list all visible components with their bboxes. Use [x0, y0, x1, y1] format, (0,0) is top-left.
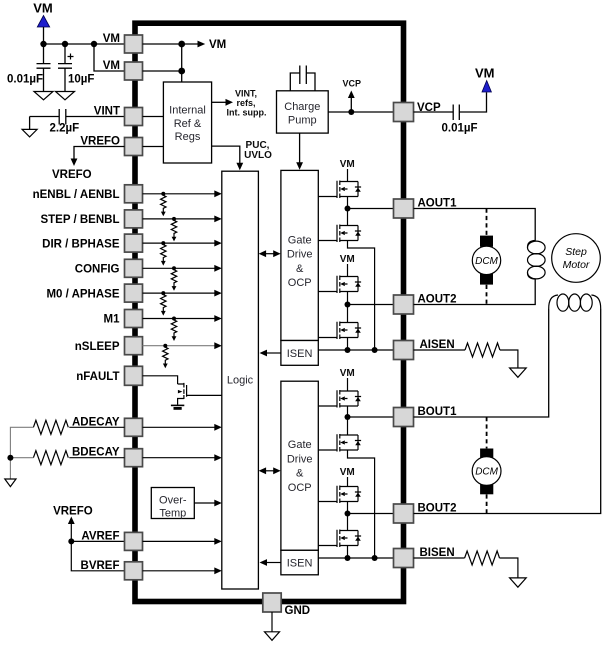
svg-text:VINT,: VINT,: [235, 89, 257, 99]
wire nENBL / AENBL to Logic: [143, 193, 216, 195]
wire BOUT2 node to pin: [348, 513, 394, 515]
pin BOUT2: [394, 504, 414, 523]
wire PUC UVLO to Logic: [212, 146, 240, 163]
svg-text:Drive: Drive: [287, 453, 313, 465]
svg-text:Internal: Internal: [169, 105, 206, 117]
svg-text:&: &: [296, 263, 304, 275]
svg-text:ADECAY: ADECAY: [72, 416, 120, 428]
double arrow Logic to Gate Drive A: [265, 253, 276, 255]
pin AOUT1: [394, 199, 414, 218]
svg-text:10µF: 10µF: [68, 74, 94, 86]
svg-text:AVREF: AVREF: [81, 530, 119, 542]
node BOUT1: [345, 414, 351, 420]
pulldown resistor on M1: [172, 317, 176, 321]
wire B2 source to BISEN: [348, 450, 375, 558]
sense resistor AISEN: [465, 343, 500, 357]
DC motor A body: [472, 246, 500, 274]
pin GND: [263, 593, 281, 612]
node VCP: [348, 109, 354, 115]
wire VM stub to B3: [347, 477, 349, 487]
wire AISEN net: [318, 349, 393, 351]
arrow ISEN A to Logic: [266, 352, 281, 354]
svg-text:AOUT1: AOUT1: [418, 198, 458, 210]
svg-text:UVLO: UVLO: [244, 150, 272, 161]
pin M1: [125, 310, 143, 328]
node internal VM 1: [178, 41, 185, 48]
svg-text:&: &: [296, 468, 304, 480]
wire B3 source to BOUT2 node to B4 drain: [347, 502, 349, 531]
svg-text:VM: VM: [340, 159, 355, 170]
svg-text:Over-: Over-: [159, 495, 187, 507]
wire BOUT1 to coil B: [414, 309, 549, 417]
arrow Charge Pump to Gate Drive A: [299, 133, 301, 162]
pin VINT: [125, 108, 143, 126]
inductor coil phase A: [527, 241, 535, 280]
node junction at C2: [62, 41, 68, 47]
arrow Over-Temp to Logic: [194, 502, 215, 504]
wire gate of nFAULT FET to Logic: [187, 394, 222, 396]
wire M1 to Logic: [143, 318, 216, 320]
wire VCP net: [328, 111, 393, 113]
arrow VREFO up: [68, 517, 75, 525]
svg-text:VM: VM: [340, 368, 355, 379]
pin VREFO: [125, 138, 143, 156]
svg-text:AOUT2: AOUT2: [418, 294, 457, 306]
block Internal Ref & Regs: [163, 82, 211, 163]
svg-text:Charge: Charge: [284, 101, 320, 113]
pin VM 2: [125, 62, 143, 80]
svg-text:GND: GND: [285, 605, 311, 617]
dashed lead DC motor A: [486, 209, 488, 305]
wire BOUT1 node to pin: [348, 416, 394, 418]
ground below C1: [34, 92, 53, 100]
wire VREFO rail to BVREF: [71, 541, 124, 570]
DC motor B body: [472, 457, 501, 486]
pin DIR / BPHASE: [125, 234, 143, 252]
svg-text:DIR / BPHASE: DIR / BPHASE: [42, 238, 120, 250]
pulldown resistor on DIR / BPHASE: [161, 241, 165, 245]
svg-text:VREFO: VREFO: [52, 169, 92, 181]
wire B4 source to BISEN: [347, 546, 349, 559]
block Gate Drive & OCP (B): [281, 381, 318, 550]
pin VM 1: [125, 35, 143, 53]
open-drain transistor on nFAULT: [178, 383, 187, 405]
wire VM stub to A3: [347, 264, 349, 277]
svg-text:VM: VM: [340, 467, 355, 478]
DC motor B brush bottom: [480, 483, 493, 495]
pin BISEN: [394, 549, 414, 568]
svg-text:VM: VM: [33, 1, 53, 16]
svg-text:VM: VM: [209, 39, 226, 51]
svg-text:nFAULT: nFAULT: [76, 371, 119, 383]
wire AISEN resistor to ground: [500, 350, 518, 368]
pin AVREF: [125, 532, 143, 550]
arrow ISEN B to Logic: [266, 562, 281, 564]
node AISEN 2: [372, 347, 378, 353]
sense resistor BISEN: [465, 551, 500, 565]
svg-text:Int. supp.: Int. supp.: [227, 107, 267, 117]
svg-text:0.01µF: 0.01µF: [442, 123, 478, 135]
wire ADECAY to external resistor: [69, 426, 124, 428]
VM supply arrow (blue triangle): [37, 16, 49, 28]
svg-text:ISEN: ISEN: [287, 348, 313, 360]
node junction at C1: [40, 41, 46, 47]
node AOUT2: [345, 302, 351, 308]
wire VREFO external: [74, 147, 125, 160]
wire AVREF to Logic: [143, 540, 216, 542]
wire BISEN net: [318, 557, 393, 559]
pulldown resistor on STEP / BENBL: [172, 217, 176, 221]
pulldown resistor on nENBL / AENBL: [161, 192, 165, 196]
wire CONFIG to Logic: [143, 267, 216, 269]
wire M0 / APHASE to Logic: [143, 292, 216, 294]
wire ADECAY to Logic: [143, 426, 216, 428]
svg-text:VM: VM: [103, 60, 120, 72]
block Charge Pump: [277, 91, 329, 133]
wire VREFO rail to AVREF: [71, 540, 124, 542]
svg-text:AISEN: AISEN: [420, 339, 455, 351]
svg-text:CONFIG: CONFIG: [75, 264, 120, 276]
capacitor 2.2uF on VINT: [30, 109, 125, 125]
svg-text:VM: VM: [475, 66, 495, 81]
pin ADECAY: [125, 418, 143, 436]
wire AOUT2 node to pin: [348, 304, 394, 306]
svg-text:Temp: Temp: [159, 508, 186, 520]
svg-text:VM: VM: [103, 33, 120, 45]
transistor A low-side 2: [337, 322, 361, 340]
svg-text:Regs: Regs: [175, 131, 201, 143]
node AOUT1: [345, 206, 351, 212]
svg-text:OCP: OCP: [288, 277, 312, 289]
pin VCP: [394, 103, 414, 122]
transistor A high-side 2: [337, 276, 361, 294]
IC package outline: [135, 23, 404, 601]
ground below 2.2uF: [22, 129, 37, 137]
svg-text:Step: Step: [565, 246, 587, 258]
wire BDECAY resistor to ground rail (gray): [10, 458, 33, 479]
pin nSLEEP: [125, 337, 143, 355]
node junction at VM branch: [91, 41, 97, 47]
pulldown resistor on CONFIG: [172, 266, 176, 270]
wire BISEN to sense resistor: [414, 557, 465, 559]
block Gate Drive & OCP (A): [281, 170, 318, 340]
wire VM pin2 to internal node: [143, 70, 182, 72]
wire STEP / BENBL to Logic: [143, 218, 216, 220]
block Over-Temp: [151, 488, 194, 519]
node decay ground rail: [7, 455, 13, 461]
ground below C2: [56, 92, 75, 100]
transistor B low-side 2: [337, 530, 361, 548]
pin AISEN: [394, 341, 414, 360]
svg-text:BVREF: BVREF: [81, 560, 120, 572]
arrow PUC UVLO into Logic: [236, 163, 243, 171]
capacitor C1 0.01uF: [37, 44, 51, 92]
pulldown resistor on nSLEEP: [163, 344, 167, 348]
wire BDECAY to Logic: [143, 457, 216, 459]
charge pump flying capacitor: [290, 66, 315, 91]
wire AOUT1 to coil A: [414, 209, 536, 241]
svg-text:nSLEEP: nSLEEP: [75, 341, 120, 353]
svg-text:nENBL / AENBL: nENBL / AENBL: [33, 189, 120, 201]
block ISEN (B): [281, 550, 318, 575]
wire AISEN to sense resistor: [414, 349, 466, 351]
wire A2 source to AISEN: [348, 241, 375, 351]
svg-text:Logic: Logic: [227, 374, 254, 386]
svg-text:BOUT1: BOUT1: [418, 406, 458, 418]
transistor A low-side 1: [337, 225, 361, 243]
VM arrow right (blue triangle): [482, 81, 491, 93]
svg-text:BDECAY: BDECAY: [72, 447, 120, 459]
pulldown resistor on M0 / APHASE: [161, 291, 165, 295]
wire A4 source to AISEN: [347, 338, 349, 351]
node BISEN 2: [372, 555, 378, 561]
node AISEN 1: [345, 347, 351, 353]
wire gate leads B: [318, 406, 337, 546]
node BISEN 1: [345, 555, 351, 561]
wire A1 source to AOUT1 node to A2 drain: [347, 197, 349, 226]
wire VM node down to Internal Ref block: [181, 44, 183, 82]
svg-text:Drive: Drive: [287, 249, 313, 261]
svg-text:Motor: Motor: [563, 259, 590, 271]
wire BDECAY to external resistor: [69, 457, 124, 459]
wire ADECAY resistor to ground rail (gray): [10, 427, 33, 457]
pin BOUT1: [394, 408, 414, 427]
svg-text:VM: VM: [340, 254, 355, 265]
wire AOUT2 to coil A: [414, 279, 536, 305]
svg-text:VINT: VINT: [94, 106, 120, 118]
pin STEP / BENBL: [125, 210, 143, 228]
DC motor A brush top: [480, 236, 493, 247]
pin nENBL / AENBL: [125, 185, 143, 203]
svg-text:VREFO: VREFO: [80, 136, 120, 148]
wire VM pin1 to internal node: [143, 43, 182, 45]
stepper motor symbol: [552, 234, 601, 283]
wire AOUT1 node to pin: [348, 208, 394, 210]
ground below AISEN resistor: [510, 368, 527, 377]
node VREFO rail: [68, 538, 74, 544]
arrow internal VM: [182, 43, 198, 45]
wire VM stub to A1: [347, 169, 349, 182]
wire VM branch to second VM pin: [94, 44, 125, 71]
pin BVREF: [125, 562, 143, 580]
plus sign of C2: [68, 54, 74, 60]
pin nFAULT: [125, 366, 143, 385]
wire VM supply vertical: [43, 27, 45, 44]
double arrow Logic to Gate Drive B: [265, 470, 276, 472]
wire VINT pin to Internal Ref block: [143, 116, 164, 118]
transistor B high-side 1: [337, 390, 361, 408]
pin CONFIG: [125, 259, 143, 277]
wire 2.2uF to ground: [29, 117, 31, 130]
svg-text:BOUT2: BOUT2: [418, 503, 457, 515]
DC motor A brush bottom: [480, 273, 493, 284]
svg-text:VCP: VCP: [342, 79, 361, 89]
wire BVREF to Logic: [143, 570, 216, 572]
transistor B high-side 2: [337, 486, 361, 504]
pin M0 / APHASE: [125, 284, 143, 302]
wire nFAULT to open-drain FET: [143, 376, 178, 384]
wire nSLEEP to Logic (gray): [143, 345, 216, 347]
node BOUT2: [345, 511, 351, 517]
arrow VINT refs int supp: [212, 101, 226, 103]
transistor B low-side 1: [337, 434, 361, 452]
svg-text:DCM: DCM: [475, 256, 498, 267]
resistor on ADECAY: [33, 420, 68, 434]
svg-text:M0 / APHASE: M0 / APHASE: [46, 288, 119, 300]
capacitor C2 10uF polarized: [58, 44, 72, 92]
wire A3 source to AOUT2 node to A4 drain: [347, 292, 349, 323]
arrow VREFO down: [71, 159, 78, 167]
ground below decay rail: [5, 479, 16, 487]
svg-text:DCM: DCM: [475, 467, 498, 478]
earth ground below nFAULT FET: [171, 404, 184, 406]
svg-text:M1: M1: [104, 314, 121, 326]
svg-text:Gate: Gate: [288, 234, 312, 246]
wire DIR / BPHASE to Logic: [143, 242, 216, 244]
svg-text:Ref &: Ref &: [174, 118, 202, 130]
wire VREFO pin to Internal Ref block: [143, 146, 164, 148]
block ISEN (A): [281, 341, 318, 366]
resistor on BDECAY: [33, 451, 68, 465]
dashed lead DC motor B: [486, 417, 488, 514]
capacitor 0.01uF on VCP: [414, 92, 487, 120]
wire GND to ground: [271, 612, 273, 632]
wire VM stub to B1: [347, 378, 349, 391]
DC motor B brush top: [480, 449, 493, 460]
wire B1 source to BOUT1 node to B2 drain: [347, 406, 349, 435]
node internal VM 2: [178, 68, 185, 75]
svg-text:0.01µF: 0.01µF: [7, 74, 43, 86]
wire gate leads A: [318, 197, 337, 338]
inductor coil phase B: [549, 295, 601, 309]
pin AOUT2: [394, 295, 414, 314]
wire BISEN resistor to ground: [500, 558, 518, 578]
svg-text:Gate: Gate: [288, 439, 312, 451]
arrow VCP up: [350, 98, 352, 113]
transistor A high-side 1: [337, 181, 361, 199]
pin BDECAY: [125, 449, 143, 467]
svg-text:ISEN: ISEN: [287, 558, 313, 570]
block Logic: [222, 171, 259, 589]
svg-text:VREFO: VREFO: [53, 505, 93, 517]
svg-text:STEP / BENBL: STEP / BENBL: [40, 214, 119, 226]
ground below BISEN resistor: [510, 578, 527, 587]
wire BOUT2 to coil B: [414, 309, 601, 514]
svg-text:OCP: OCP: [288, 482, 312, 494]
wire VM supply rail to VM pin: [44, 43, 125, 45]
svg-text:2.2µF: 2.2µF: [50, 123, 80, 135]
svg-text:Pump: Pump: [288, 114, 317, 126]
svg-text:BISEN: BISEN: [420, 547, 455, 559]
ground below GND pin: [265, 632, 280, 641]
